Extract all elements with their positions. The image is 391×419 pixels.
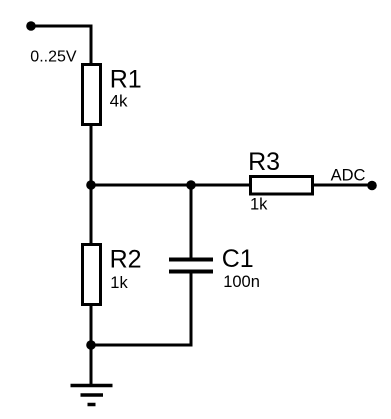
wire C1 top to node B: [190, 185, 193, 258]
ground bar 3: [88, 403, 96, 407]
capacitor C1 bottom plate: [169, 270, 213, 274]
resistor R1: [83, 65, 101, 125]
node A junction: [86, 180, 96, 190]
svg-text:R2: R2: [110, 246, 142, 274]
ground bar 2: [81, 393, 104, 397]
resistor R2: [83, 245, 101, 305]
svg-text:ADC: ADC: [331, 166, 366, 184]
svg-text:1k: 1k: [110, 274, 128, 292]
wire node A to R2 top: [90, 185, 93, 245]
svg-text:R1: R1: [110, 65, 142, 93]
svg-text:4k: 4k: [110, 91, 128, 110]
wire R1 bottom to node A: [90, 124, 93, 185]
capacitor C1 top plate: [169, 258, 213, 262]
svg-text:1k: 1k: [250, 196, 268, 214]
svg-text:0..25V: 0..25V: [30, 48, 77, 65]
terminal dot V+: [26, 21, 36, 31]
wire V+ to R1 top: [31, 26, 91, 63]
ground bar 1: [71, 384, 113, 388]
svg-text:C1: C1: [222, 245, 254, 273]
wire node C to C1 bottom: [91, 274, 191, 346]
svg-text:R3: R3: [248, 148, 280, 176]
resistor R3: [251, 177, 313, 195]
wire node C to ground: [90, 345, 93, 386]
wire R2 bottom to node C: [90, 304, 93, 345]
wire node A to ADC terminal: [91, 184, 372, 187]
node C junction: [86, 340, 96, 350]
node B junction: [186, 180, 196, 190]
terminal dot ADC: [367, 181, 377, 191]
svg-text:100n: 100n: [223, 273, 260, 291]
